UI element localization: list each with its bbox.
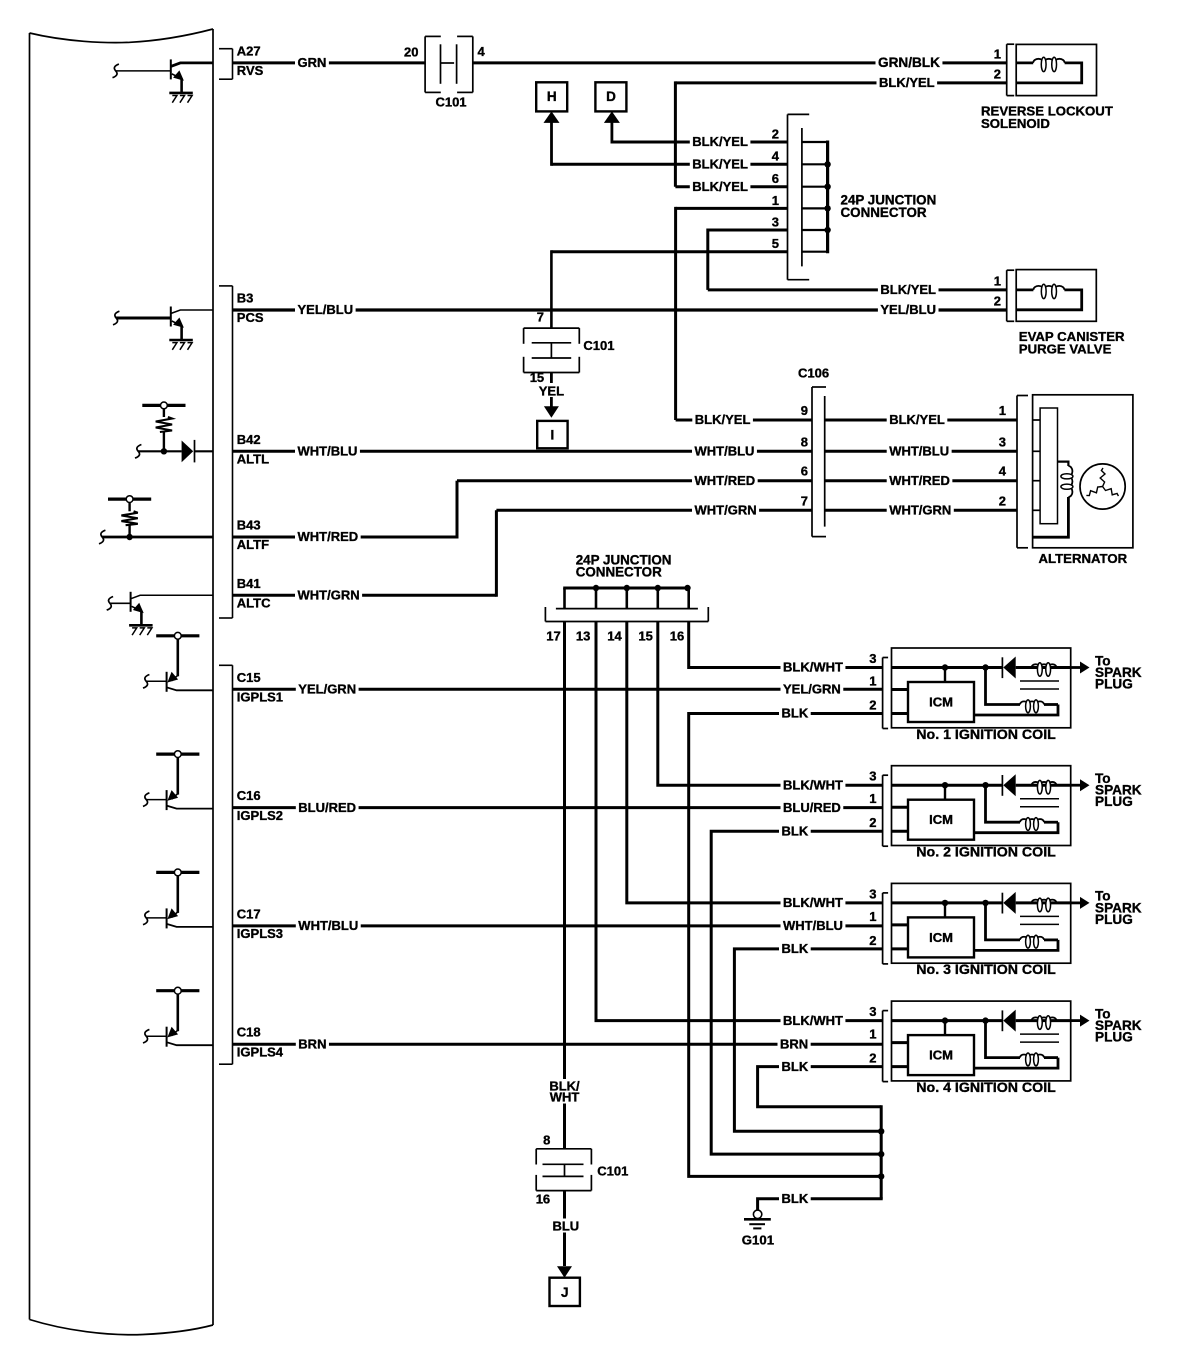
EVAP canister purge valve box [1016, 270, 1096, 322]
svg-text:WHT/BLU: WHT/BLU [298, 444, 358, 459]
svg-text:IGPLS1: IGPLS1 [237, 690, 283, 705]
ignition coil 1 box [892, 648, 1071, 728]
svg-text:ALTC: ALTC [237, 596, 271, 611]
label BLK/YEL C106 right [887, 413, 948, 427]
label BLK/YEL row4 [690, 157, 751, 171]
svg-text:No. 1 IGNITION COIL: No. 1 IGNITION COIL [916, 727, 1056, 743]
label BLK coil2 [779, 824, 811, 838]
svg-text:BLK: BLK [782, 941, 809, 956]
alternator pin stubs [1033, 419, 1041, 421]
svg-text:3: 3 [772, 214, 779, 229]
diode D coil4 [1001, 1010, 1003, 1031]
label BLK/WHT on pin17 wire [548, 1079, 582, 1104]
junction connector stub pin row 3 [802, 207, 828, 209]
junction dot coil4 secondary feed [982, 1017, 988, 1023]
junction dots ground bus [878, 1128, 884, 1134]
wire coil4 pin2 internal [892, 1065, 908, 1068]
stator winding arm left [1103, 487, 1119, 497]
ICM module coil4 [908, 1035, 974, 1075]
transistor Q3 (ALTC output, NPN with ground) [130, 592, 132, 612]
alternator stator (3-phase windings) [1080, 464, 1125, 509]
transistor Q1 (RVS output, NPN with ground) [170, 59, 172, 79]
svg-text:No. 4 IGNITION COIL: No. 4 IGNITION COIL [916, 1080, 1056, 1096]
wire BLU to J [563, 1191, 566, 1266]
junction dot on bus [824, 227, 830, 233]
label GRN [295, 56, 329, 70]
label YEL/GRN near coil1 [781, 682, 844, 696]
arrow to spark plug coil2 [1071, 784, 1081, 787]
svg-text:2: 2 [772, 126, 779, 141]
wire B41 WHT/GRN to C106 pin7 [233, 594, 497, 597]
svg-text:1: 1 [994, 46, 1001, 61]
arrow into J [557, 1266, 572, 1278]
ECM/PCM box bottom wavy edge [30, 1320, 214, 1335]
svg-text:B42: B42 [237, 432, 261, 447]
label BLK/YEL row2 [690, 135, 751, 149]
svg-text:16: 16 [536, 1191, 550, 1206]
wire B42 WHT/BLU to C106 pin8 [233, 450, 813, 453]
svg-text:IGPLS3: IGPLS3 [237, 926, 283, 941]
wire pin13 to coil4 pin3 [596, 622, 883, 1021]
svg-text:WHT/GRN: WHT/GRN [889, 503, 951, 518]
svg-text:WHT/BLU: WHT/BLU [889, 444, 949, 459]
svg-text:2: 2 [869, 698, 876, 713]
ECM/PCM box left edge [29, 33, 31, 1320]
svg-text:BLK/YEL: BLK/YEL [692, 179, 748, 194]
wire YEL to I [550, 373, 553, 407]
junction dot coil1 ICM feed [942, 664, 948, 670]
svg-text:6: 6 [801, 464, 808, 479]
label BLK/YEL to C106 [692, 413, 753, 427]
svg-text:2: 2 [999, 493, 1006, 508]
power source node above R1 [142, 404, 185, 407]
svg-text:1: 1 [869, 791, 876, 806]
junction dot coil2 ICM feed [942, 782, 948, 788]
svg-text:BLK/WHT: BLK/WHT [783, 895, 843, 910]
junction connector stub pin row 5 [802, 251, 828, 253]
connector bracket pin A27 [219, 48, 233, 50]
wire junction pin3 to EVAP pin1 [708, 229, 788, 232]
junction connector stub pin row 4 [802, 229, 828, 231]
label WHT/GRN near C106 [692, 503, 759, 517]
svg-text:YEL/BLU: YEL/BLU [298, 302, 354, 317]
connector bracket pins C15-C18 [219, 664, 233, 666]
svg-text:ALTF: ALTF [237, 537, 269, 552]
svg-text:ALTL: ALTL [237, 452, 269, 467]
svg-text:16: 16 [670, 629, 684, 644]
svg-text:WHT/BLU: WHT/BLU [695, 444, 755, 459]
svg-text:PURGE VALVE: PURGE VALVE [1019, 341, 1112, 356]
primary winding coil4 [1032, 1017, 1057, 1020]
bus bar of 24P junction connector [826, 141, 829, 254]
label WHT/BLU B42 near C106 [692, 444, 757, 458]
svg-text:3: 3 [869, 1004, 876, 1019]
label BLK coil4 [779, 1060, 811, 1074]
svg-text:BLK/WHT: BLK/WHT [783, 1013, 843, 1028]
svg-text:WHT/BLU: WHT/BLU [783, 918, 843, 933]
svg-text:BLK/YEL: BLK/YEL [880, 282, 936, 297]
svg-text:IGPLS2: IGPLS2 [237, 808, 283, 823]
label BLK coil1 [779, 707, 811, 721]
wire C16 BLU/RED to coil2 [233, 806, 884, 809]
label WHT/BLU near coil3 [781, 919, 846, 933]
wire diode to primary coil4 [1016, 1019, 1071, 1022]
wire B42 internal with hook [135, 445, 141, 459]
svg-text:1: 1 [869, 674, 876, 689]
svg-text:BRN: BRN [298, 1036, 326, 1051]
wire coil2 pin2 internal [892, 830, 908, 833]
svg-text:PLUG: PLUG [1095, 1030, 1133, 1045]
label BLK/WHT coil3 [781, 896, 846, 910]
svg-text:IGPLS4: IGPLS4 [237, 1044, 284, 1059]
svg-text:B41: B41 [237, 576, 261, 591]
label BLU/RED near coil2 [781, 801, 844, 815]
transistor Q5 (IGPLS2, PNP with supply) [156, 752, 199, 755]
svg-text:B43: B43 [237, 518, 261, 533]
svg-text:A27: A27 [237, 43, 261, 58]
label YEL/GRN near ECU [296, 682, 359, 696]
ICM module coil1 [908, 682, 974, 722]
wire B43 internal with hook [99, 530, 105, 544]
svg-text:5: 5 [772, 236, 779, 251]
svg-text:2: 2 [994, 67, 1001, 82]
svg-text:BLK/YEL: BLK/YEL [879, 75, 935, 90]
svg-text:BRN: BRN [780, 1036, 808, 1051]
arrow into D [604, 111, 620, 123]
svg-text:PCS: PCS [237, 310, 264, 325]
junction dot coil3 secondary feed [982, 900, 988, 906]
svg-text:WHT/RED: WHT/RED [889, 473, 950, 488]
label WHT/RED C106 right [887, 474, 953, 488]
junction dot coil2 secondary feed [982, 782, 988, 788]
alternator box [1033, 395, 1133, 548]
svg-text:PLUG: PLUG [1095, 677, 1133, 692]
junction dot coil3 ICM feed [942, 900, 948, 906]
svg-text:CONNECTOR: CONNECTOR [841, 205, 927, 220]
svg-text:BLU/RED: BLU/RED [783, 800, 841, 815]
transformer core coil2 [1020, 798, 1059, 800]
transformer core coil1 [1020, 680, 1059, 682]
wire coil3 pin1 internal [892, 923, 908, 926]
label WHT/GRN near ECU [295, 588, 362, 602]
purge valve bracket [1006, 270, 1008, 321]
svg-text:C15: C15 [237, 670, 261, 685]
svg-text:2: 2 [869, 933, 876, 948]
wire C106 pin1 to alternator [825, 419, 1017, 422]
wire BLK/YEL junction pin2 to D [612, 141, 788, 144]
svg-text:J: J [561, 1285, 569, 1300]
svg-text:1: 1 [999, 403, 1006, 418]
wire BLK/YEL solenoid pin2 to junction pin6 [675, 81, 1006, 84]
junction connector stub pin row 2 [802, 186, 828, 188]
svg-text:2: 2 [869, 1051, 876, 1066]
wire pin16 to coil1 pin3 [689, 622, 883, 668]
wire coil1 pin2 internal [892, 712, 908, 715]
label YEL [535, 383, 567, 397]
svg-text:ICM: ICM [929, 1048, 953, 1063]
svg-text:13: 13 [576, 629, 590, 644]
connector C101 (pins 20/4) [424, 36, 426, 92]
secondary winding coil1 [1044, 703, 1058, 706]
diode D coil3 [1001, 893, 1003, 914]
svg-text:1: 1 [994, 273, 1001, 288]
ignition coil 4 bracket [882, 1011, 884, 1082]
svg-text:BLK/YEL: BLK/YEL [692, 157, 748, 172]
wire coil2 pin1 internal [892, 806, 908, 809]
svg-text:BLU/RED: BLU/RED [298, 800, 356, 815]
svg-text:PLUG: PLUG [1095, 794, 1133, 809]
svg-text:6: 6 [772, 171, 779, 186]
svg-text:3: 3 [869, 651, 876, 666]
svg-text:SOLENOID: SOLENOID [981, 116, 1050, 131]
stator winding arm up [1100, 468, 1105, 487]
transformer core coil4 [1020, 1033, 1059, 1035]
middle junction connector body [556, 608, 698, 610]
svg-text:ICM: ICM [929, 812, 953, 827]
label BLK/WHT coil4 [781, 1014, 846, 1028]
wire GRN/BLK to solenoid [473, 61, 1007, 64]
wire BLK coil4 to ground bus [758, 1067, 883, 1107]
arrow to spark plug coil3 [1071, 902, 1081, 905]
ignition coil 3 box [892, 883, 1071, 963]
wire B3 YEL/BLU to EVAP pin2 [233, 308, 1007, 311]
wire coil3 pin2 internal [892, 947, 908, 950]
label BRN near ECU [296, 1037, 329, 1051]
svg-text:4: 4 [999, 464, 1007, 479]
label BLK/YEL to EVAP [878, 283, 939, 297]
secondary winding coil4 [1044, 1056, 1058, 1059]
label WHT/GRN C106 right [887, 503, 954, 517]
svg-text:C18: C18 [237, 1025, 261, 1040]
wire C106 pin3 to alternator [825, 450, 1017, 453]
svg-text:2: 2 [869, 815, 876, 830]
wire diode to primary coil1 [1016, 666, 1071, 669]
svg-text:BLK/YEL: BLK/YEL [695, 412, 751, 427]
purge valve coil L2 [1016, 288, 1033, 291]
label BLK at G101 [779, 1192, 811, 1206]
ignition coil 3 bracket [882, 893, 884, 964]
wire BLK coil1 to ground bus [689, 714, 883, 1177]
svg-text:20: 20 [404, 45, 418, 60]
resistor R2 (ALTF pullup) [128, 503, 130, 511]
svg-text:BLU: BLU [552, 1218, 579, 1233]
primary winding coil1 [1032, 664, 1057, 667]
svg-text:WHT/BLU: WHT/BLU [298, 918, 358, 933]
wire C15 YEL/GRN to coil1 [233, 688, 884, 691]
alternator bracket [1016, 396, 1018, 548]
wire coil4 pin3 internal [892, 1019, 1003, 1022]
ground G101 [753, 1210, 761, 1218]
wire junction pin1 to C106 pin9 [676, 207, 788, 210]
stator winding arm right [1086, 487, 1102, 496]
svg-text:3: 3 [999, 434, 1006, 449]
transistor Q4 (IGPLS1, PNP with supply) [156, 634, 199, 637]
junction dot B43 net [126, 534, 132, 540]
arrow into H [544, 111, 560, 123]
svg-text:YEL/GRN: YEL/GRN [298, 682, 356, 697]
wire BLK/YEL junction pin4 to H [552, 163, 788, 166]
svg-text:C101: C101 [583, 338, 614, 353]
svg-text:7: 7 [537, 310, 544, 325]
svg-text:BLK: BLK [782, 706, 809, 721]
svg-text:H: H [547, 89, 557, 104]
stub pins 17/13/14/15/16 [563, 588, 566, 609]
wire coil1 pin1 internal [892, 688, 908, 691]
junction dot on bus [824, 205, 830, 211]
svg-text:YEL/GRN: YEL/GRN [783, 682, 841, 697]
wire coil2 pin3 internal [892, 784, 1003, 787]
box J (to page J) [550, 1278, 580, 1306]
connector bracket pins B3-B41 [219, 285, 233, 287]
svg-text:WHT/RED: WHT/RED [695, 473, 756, 488]
label BLK/WHT coil1 [781, 661, 846, 675]
primary winding coil2 [1032, 782, 1057, 785]
bus bar middle junction connector [563, 587, 689, 590]
junction connector stub pin row 0 [802, 141, 828, 143]
svg-text:14: 14 [607, 629, 622, 644]
svg-text:7: 7 [801, 493, 808, 508]
svg-text:G101: G101 [742, 1233, 774, 1248]
junction dot on bus [824, 161, 830, 167]
junction dot coil4 ICM feed [942, 1017, 948, 1023]
svg-text:8: 8 [801, 434, 808, 449]
svg-text:RVS: RVS [237, 63, 264, 78]
label BLU/RED near ECU [296, 801, 359, 815]
wire A27 GRN [233, 61, 426, 64]
svg-text:GRN/BLK: GRN/BLK [878, 55, 940, 70]
svg-text:BLK/YEL: BLK/YEL [889, 412, 945, 427]
svg-text:BLK: BLK [782, 1191, 809, 1206]
svg-text:2: 2 [994, 294, 1001, 309]
wire pin14 to coil3 pin3 [627, 622, 883, 903]
alternator field coil L3 [1058, 462, 1069, 466]
ECM/PCM box right edge [212, 29, 214, 1325]
junction dot on bus [824, 184, 830, 190]
label WHT/BLU B42 near ECU [295, 444, 360, 458]
box D (to page D) [595, 82, 626, 111]
svg-text:No. 3 IGNITION COIL: No. 3 IGNITION COIL [916, 962, 1056, 978]
box I (from page I) [537, 421, 567, 448]
ICM module coil3 [908, 917, 974, 957]
ignition coil 1 bracket [882, 658, 884, 729]
svg-text:CONNECTOR: CONNECTOR [576, 564, 662, 579]
connector C101 (pins 7/15) [524, 327, 580, 329]
svg-text:No. 2 IGNITION COIL: No. 2 IGNITION COIL [916, 845, 1056, 861]
svg-text:4: 4 [772, 149, 780, 164]
label WHT/BLU near ECU C17 [296, 919, 361, 933]
svg-text:GRN: GRN [298, 55, 327, 70]
wire coil4 pin1 internal [892, 1041, 908, 1044]
svg-text:B3: B3 [237, 291, 254, 306]
svg-text:17: 17 [546, 629, 560, 644]
connector C106 [811, 387, 813, 537]
ignition coil 4 box [892, 1001, 1071, 1081]
secondary winding coil2 [1044, 821, 1058, 824]
wire C18 BRN to coil4 [233, 1043, 884, 1046]
svg-text:PLUG: PLUG [1095, 912, 1133, 927]
svg-text:ALTERNATOR: ALTERNATOR [1039, 551, 1128, 566]
wire BLK coil2 to ground bus [711, 831, 883, 1154]
svg-text:4: 4 [478, 44, 486, 59]
transistor Q2 (PCS output, NPN with ground) [170, 307, 172, 327]
label GRN/BLK [876, 56, 943, 70]
svg-text:C101: C101 [597, 1163, 628, 1178]
label WHT/RED near ECU [295, 530, 361, 544]
svg-text:WHT/GRN: WHT/GRN [695, 503, 757, 518]
svg-text:1: 1 [869, 909, 876, 924]
svg-text:C16: C16 [237, 788, 261, 803]
arrow into I [544, 406, 559, 418]
svg-text:C101: C101 [435, 95, 466, 110]
wire B43 WHT/RED to C106 pin6 [233, 536, 458, 539]
solenoid bracket [1006, 44, 1008, 95]
diode D1 (ALTL) [182, 441, 194, 463]
arrow to spark plug coil1 [1071, 666, 1081, 669]
wire BLK to G101 [758, 1199, 883, 1211]
ignition coil 2 box [892, 766, 1071, 846]
ECM/PCM box top wavy edge [30, 29, 214, 43]
wire pin15 to coil2 pin3 [658, 622, 883, 786]
wire diode to primary coil2 [1016, 784, 1071, 787]
svg-text:WHT/GRN: WHT/GRN [298, 588, 360, 603]
transistor Q7 (IGPLS4, PNP with supply) [156, 989, 199, 992]
svg-text:8: 8 [543, 1133, 550, 1148]
svg-text:BLK/WHT: BLK/WHT [783, 777, 843, 792]
svg-text:1: 1 [869, 1027, 876, 1042]
box H (to page H) [536, 82, 567, 111]
alternator regulator rectangle [1040, 408, 1057, 524]
connector C101 (pins 8/16) [536, 1148, 591, 1150]
svg-text:YEL/BLU: YEL/BLU [880, 302, 936, 317]
svg-text:1: 1 [772, 193, 779, 208]
transistor Q6 (IGPLS3, PNP with supply) [156, 871, 199, 874]
junction dots on middle bus [593, 585, 599, 591]
svg-text:9: 9 [801, 403, 808, 418]
wire coil3 pin3 internal [892, 901, 1003, 904]
label BLK coil3 [779, 942, 811, 956]
label BLK/YEL row6 [690, 180, 751, 194]
label YEL/BLU near ECU [295, 303, 356, 317]
resistor R1 (ALTL pullup) [163, 409, 165, 417]
label BRN near coil4 [778, 1037, 811, 1051]
svg-text:D: D [606, 89, 616, 104]
24P junction connector body (upper) [787, 114, 789, 279]
wire BLK coil3 to ground bus [734, 949, 883, 1131]
wire C106 pin2 to alternator [825, 509, 1017, 512]
label BLU [549, 1219, 583, 1233]
transformer core coil3 [1020, 915, 1059, 917]
arrow to spark plug coil4 [1071, 1019, 1081, 1022]
solenoid coil L1 [1016, 62, 1033, 65]
svg-text:ICM: ICM [929, 695, 953, 710]
junction dot B42 net [161, 448, 167, 454]
diode D coil1 [1001, 657, 1003, 678]
junction dot coil1 secondary feed [982, 664, 988, 670]
svg-text:C106: C106 [798, 365, 829, 380]
svg-text:BLK/YEL: BLK/YEL [692, 134, 748, 149]
wire C17 WHT/BLU to coil3 [233, 924, 884, 927]
svg-text:ICM: ICM [929, 930, 953, 945]
svg-text:BLK/WHT: BLK/WHT [783, 660, 843, 675]
junction connector stub pin row 1 [802, 163, 828, 165]
svg-text:I: I [551, 428, 555, 443]
secondary winding coil3 [1044, 939, 1058, 942]
primary winding coil3 [1032, 900, 1057, 903]
ICM module coil2 [908, 800, 974, 840]
svg-text:BLK: BLK [782, 823, 809, 838]
svg-text:BLK: BLK [782, 1059, 809, 1074]
svg-text:WHT: WHT [550, 1090, 580, 1105]
